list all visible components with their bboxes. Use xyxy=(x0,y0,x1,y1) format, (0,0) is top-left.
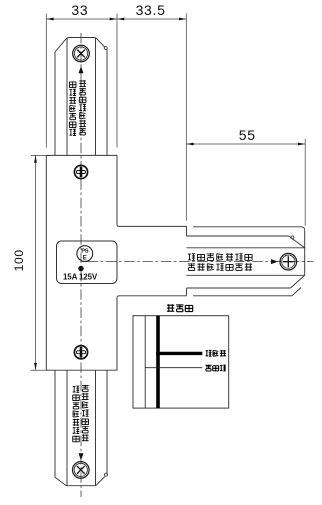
svg-text:33.5: 33.5 xyxy=(136,2,166,18)
svg-text:15A 125V: 15A 125V xyxy=(63,273,98,282)
svg-text:E: E xyxy=(83,255,87,261)
svg-text:100: 100 xyxy=(12,249,26,271)
svg-text:PS: PS xyxy=(81,248,89,254)
svg-text:33: 33 xyxy=(71,2,88,18)
svg-text:55: 55 xyxy=(239,127,256,143)
